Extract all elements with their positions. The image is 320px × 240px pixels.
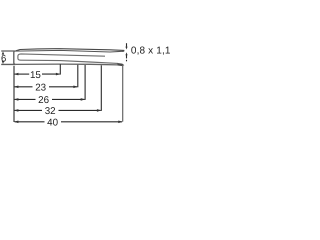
dim 40 bbox=[15, 121, 123, 123]
dim 15 bbox=[15, 64, 61, 74]
svg-text:0,8 x 1,1: 0,8 x 1,1 bbox=[131, 46, 170, 57]
dim 23 bbox=[15, 65, 78, 88]
dim 26 bbox=[15, 65, 86, 100]
blade tip bbox=[122, 50, 125, 52]
profile slot: inner rounded lines (edges C and S4) bbox=[18, 54, 118, 64]
right end vertical edge / ext 40 bbox=[122, 65, 124, 122]
svg-text:23: 23 bbox=[35, 83, 46, 94]
profile blade top edge S1 bbox=[16, 49, 125, 51]
profile blade lower edge S2 bbox=[15, 50, 124, 52]
dim 32 bbox=[15, 65, 102, 111]
svg-text:32: 32 bbox=[45, 106, 56, 117]
dimension: left extension line bbox=[13, 66, 15, 122]
svg-text:6: 6 bbox=[1, 53, 6, 64]
svg-text:26: 26 bbox=[38, 95, 49, 106]
svg-text:40: 40 bbox=[47, 118, 58, 129]
profile outline: left hook (far end) bbox=[1, 51, 15, 64]
bottom-right corner wedge bbox=[118, 63, 125, 66]
dim 6: vertical at left bbox=[2, 51, 5, 54]
svg-text:15: 15 bbox=[30, 70, 41, 81]
profile bottom front edge S5 bbox=[16, 63, 118, 66]
thickness dim 0,8 x 1,1 bbox=[126, 43, 128, 61]
